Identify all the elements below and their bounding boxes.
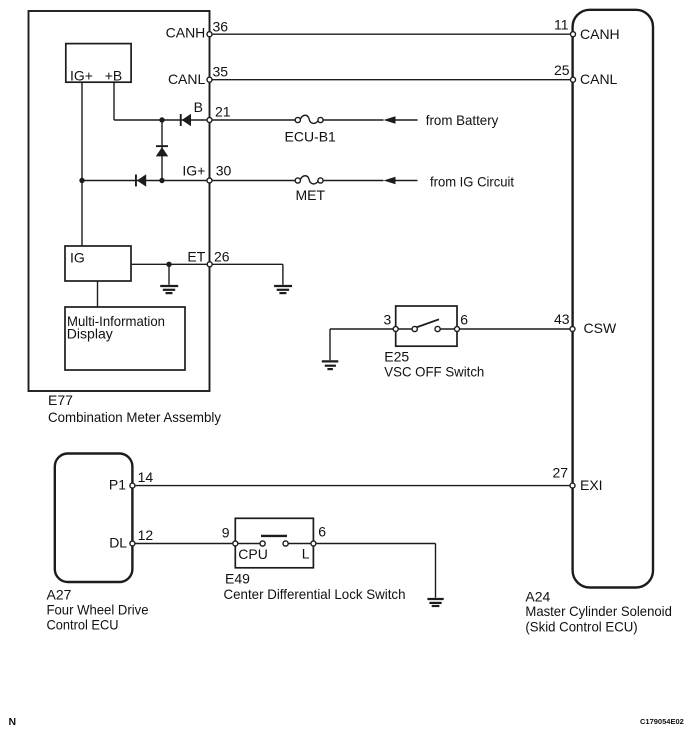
svg-text:CPU: CPU [238, 546, 268, 562]
svg-text:Four Wheel Drive: Four Wheel Drive [47, 602, 149, 618]
svg-text:CSW: CSW [584, 320, 617, 336]
svg-text:27: 27 [553, 465, 569, 481]
svg-text:35: 35 [213, 64, 229, 80]
svg-text:B: B [194, 99, 203, 115]
svg-text:CANH: CANH [166, 24, 206, 40]
svg-text:11: 11 [554, 17, 569, 33]
svg-text:CANH: CANH [580, 26, 620, 42]
svg-text:from Battery: from Battery [426, 112, 499, 128]
svg-text:6: 6 [460, 312, 468, 328]
svg-text:IG+: IG+ [182, 163, 205, 179]
svg-text:12: 12 [138, 527, 154, 543]
svg-text:3: 3 [384, 312, 392, 328]
svg-text:MET: MET [296, 187, 326, 203]
svg-text:Display: Display [67, 326, 113, 342]
svg-text:A27: A27 [47, 587, 72, 603]
svg-text:from IG Circuit: from IG Circuit [430, 174, 514, 190]
svg-text:43: 43 [554, 311, 570, 327]
svg-text:CANL: CANL [580, 71, 618, 87]
svg-text:Center Differential Lock Switc: Center Differential Lock Switch [224, 586, 406, 602]
svg-text:Control ECU: Control ECU [47, 617, 119, 633]
svg-text:21: 21 [215, 104, 231, 120]
svg-text:9: 9 [222, 525, 230, 541]
svg-text:ET: ET [187, 249, 205, 265]
svg-text:P1: P1 [109, 477, 126, 493]
svg-text:VSC OFF Switch: VSC OFF Switch [384, 364, 484, 380]
svg-text:(Skid Control ECU): (Skid Control ECU) [525, 619, 637, 635]
svg-text:CANL: CANL [168, 71, 206, 87]
svg-text:EXI: EXI [580, 477, 603, 493]
svg-text:L: L [302, 546, 310, 562]
svg-text:26: 26 [214, 249, 230, 265]
svg-text:E49: E49 [225, 571, 250, 587]
svg-text:30: 30 [216, 163, 232, 179]
svg-text:N: N [9, 716, 17, 728]
svg-text:E77: E77 [48, 392, 73, 408]
svg-text:6: 6 [318, 524, 326, 540]
svg-text:25: 25 [554, 62, 570, 78]
svg-text:DL: DL [109, 535, 127, 551]
svg-text:14: 14 [138, 469, 154, 485]
svg-text:ECU-B1: ECU-B1 [285, 129, 337, 145]
svg-text:IG: IG [70, 250, 85, 266]
svg-text:36: 36 [213, 19, 229, 35]
svg-text:Master Cylinder Solenoid: Master Cylinder Solenoid [525, 603, 672, 619]
svg-text:C179054E02: C179054E02 [640, 717, 684, 726]
svg-text:IG+: IG+ [70, 67, 93, 83]
svg-text:Combination Meter Assembly: Combination Meter Assembly [48, 409, 221, 425]
svg-text:+B: +B [105, 67, 123, 83]
svg-text:E25: E25 [384, 349, 409, 365]
